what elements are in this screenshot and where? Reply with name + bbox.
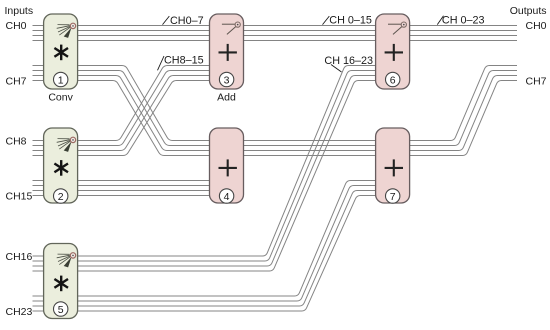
svg-text:CH7: CH7 [6,75,27,87]
wire block5 to block6 (CH16-19 rising) [76,66,378,257]
svg-text:4: 4 [224,191,230,203]
leader tick CH 0-15 [323,16,330,25]
wire block5 to block7 (CH20-23 rising) [76,181,378,297]
wire input stubs CH12-15 [33,180,46,182]
wire input stubs CH0-3 [33,25,46,27]
wire block4 to block7 [242,140,378,142]
wire input stubs CH4-7 [33,65,46,67]
wire input stubs CH20-23 [33,295,46,297]
adder block 7 [376,128,410,203]
svg-text:5: 5 [58,304,64,316]
svg-text:Inputs: Inputs [5,5,34,17]
svg-text:CH7: CH7 [525,75,546,87]
wire bus CH0-15 block3 to block6 [242,25,378,27]
svg-text:CH0–7: CH0–7 [170,15,204,27]
svg-text:CH0: CH0 [6,20,27,32]
svg-text:CH 0–23: CH 0–23 [442,14,485,26]
svg-text:CH16: CH16 [6,251,33,263]
wire block7 to output CH7 [408,66,517,141]
svg-text:Conv: Conv [48,91,73,103]
converter block 1 (Conv) [44,14,78,89]
adder block 4 [210,128,244,203]
leader tick CH8-15 [158,56,165,70]
wire block2 to block4 (CH12-15) [76,180,212,182]
wire block1 to block4 (CH4-7 down-crossing) [76,66,212,141]
converter block 5 [44,244,78,319]
svg-text:3: 3 [224,74,230,86]
adder block 3 (Add) [210,14,244,89]
svg-text:Outputs: Outputs [510,5,547,17]
svg-text:CH8–15: CH8–15 [164,55,204,67]
leader tick CH 0-23 [437,16,443,25]
leader tick CH0-7 [163,16,170,25]
svg-text:CH15: CH15 [6,190,33,202]
wire bus CH0-7 block1 to block3 [76,25,212,27]
wire bus CH0-23 block6 to output CH0 [408,25,517,27]
leader tick CH 16-23 [331,65,342,73]
wire input stubs CH16-19 [33,255,46,257]
svg-text:CH23: CH23 [6,306,33,318]
svg-text:2: 2 [58,191,64,203]
svg-text:6: 6 [390,74,396,86]
svg-text:Add: Add [217,91,236,103]
converter block 2 [44,128,78,203]
adder block 6 [376,14,410,89]
svg-text:1: 1 [58,74,64,86]
svg-text:CH8: CH8 [6,135,27,147]
svg-text:CH0: CH0 [525,20,546,32]
wire input stubs CH8-11 [33,140,46,142]
svg-text:CH 0–15: CH 0–15 [329,14,372,26]
svg-text:7: 7 [390,191,396,203]
wire block2 to block3 (CH8-11 up-crossing) [76,66,212,141]
svg-text:CH 16–23: CH 16–23 [324,55,373,67]
